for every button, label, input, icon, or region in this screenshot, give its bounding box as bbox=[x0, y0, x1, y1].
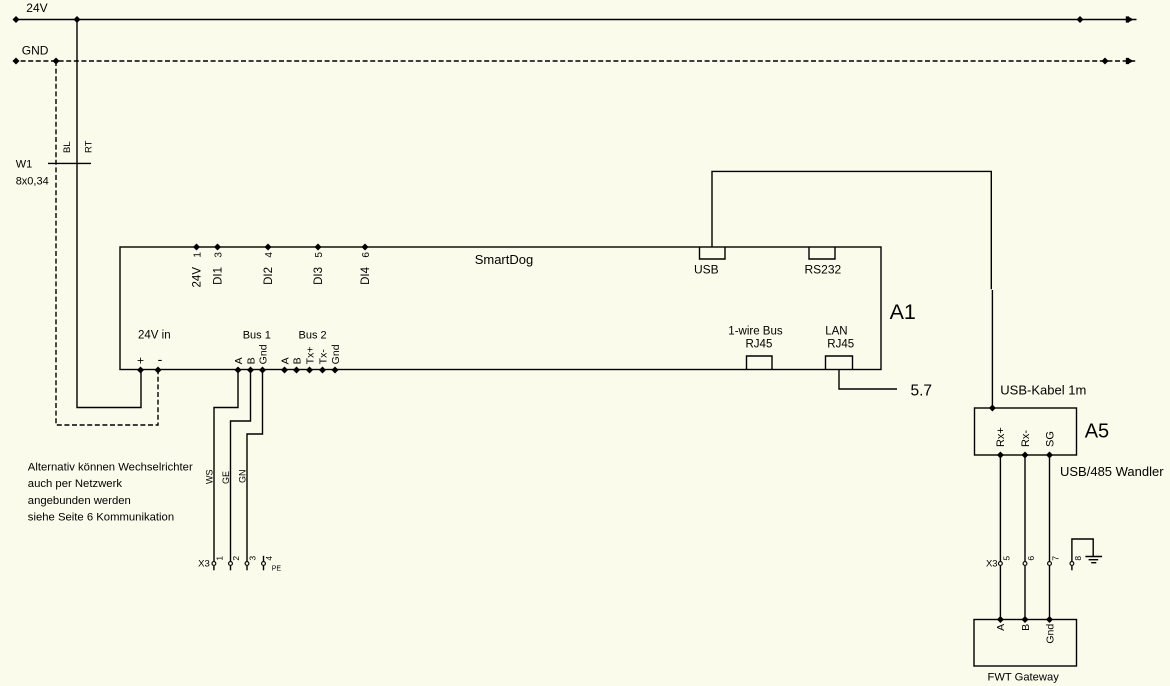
wire USB to A5 upper bbox=[712, 171, 991, 289]
svg-text:A: A bbox=[280, 357, 292, 364]
svg-text:3: 3 bbox=[214, 252, 225, 258]
node FWT B bbox=[1022, 616, 1029, 623]
svg-text:6: 6 bbox=[1026, 556, 1036, 561]
wire SG to X3 pin7 bbox=[1049, 455, 1051, 561]
box A5 USB/485 converter bbox=[975, 408, 1077, 455]
connector X3 pin8 circle bbox=[1070, 562, 1074, 566]
svg-text:4: 4 bbox=[264, 556, 274, 561]
box SmartDog A1 bbox=[120, 247, 881, 370]
svg-text:3: 3 bbox=[248, 556, 258, 561]
svg-text:USB: USB bbox=[694, 263, 719, 277]
pin DI2 4 node bbox=[265, 244, 272, 251]
svg-text:24V in: 24V in bbox=[138, 329, 171, 341]
svg-text:4: 4 bbox=[264, 252, 275, 258]
node A5 top junction bbox=[989, 405, 996, 412]
connector X3 pin1 circle bbox=[212, 562, 216, 566]
pin Rx- node bbox=[1022, 452, 1029, 459]
node 24V bus right diamond bbox=[1077, 16, 1084, 23]
svg-text:24V: 24V bbox=[192, 267, 204, 288]
svg-text:Gnd: Gnd bbox=[330, 344, 342, 364]
pin Bus1 B node bbox=[247, 367, 254, 374]
svg-text:X3: X3 bbox=[986, 558, 998, 569]
wire pin8 to ground bbox=[1072, 539, 1093, 561]
node FWT A bbox=[997, 616, 1004, 623]
svg-text:GND: GND bbox=[22, 44, 49, 58]
pin Bus2 Tx+ node bbox=[306, 367, 313, 374]
connector 1-wire Bus notch bbox=[747, 356, 773, 370]
ground symbol bbox=[1085, 557, 1102, 563]
svg-text:GN: GN bbox=[238, 470, 248, 484]
pin DI1 3 node bbox=[214, 244, 221, 251]
svg-text:+: + bbox=[137, 354, 144, 368]
wire Bus1 A to X3 pin1 bbox=[214, 370, 238, 561]
svg-text:DI4: DI4 bbox=[360, 266, 372, 285]
svg-text:B: B bbox=[246, 357, 258, 364]
pin Bus1 Gnd node bbox=[259, 367, 266, 374]
pin minus node bbox=[155, 367, 162, 374]
svg-text:LAN: LAN bbox=[825, 325, 847, 337]
wire Bus1 Gnd to X3 pin3 bbox=[247, 370, 263, 561]
svg-text:1: 1 bbox=[193, 252, 204, 258]
svg-text:DI1: DI1 bbox=[213, 267, 225, 285]
wire X3 pin5 to FWT A bbox=[999, 566, 1001, 620]
box FWT Gateway bbox=[974, 620, 1077, 667]
connector X3 pin2 stub bbox=[230, 566, 232, 570]
connector RS232 notch bbox=[809, 247, 835, 259]
connector X3 pin5 circle bbox=[999, 562, 1003, 566]
svg-text:SG: SG bbox=[1045, 431, 1057, 447]
svg-text:X3: X3 bbox=[198, 558, 210, 569]
svg-text:6: 6 bbox=[361, 252, 372, 258]
svg-text:Bus 2: Bus 2 bbox=[299, 329, 327, 341]
wire GND vertical drop to - (dashed) bbox=[56, 61, 158, 425]
pin plus node bbox=[137, 367, 144, 374]
svg-text:A5: A5 bbox=[1085, 420, 1109, 442]
pin Bus1 A node bbox=[235, 367, 242, 374]
wire GND bus (dashed) bbox=[13, 60, 1137, 62]
svg-text:RJ45: RJ45 bbox=[827, 338, 854, 350]
wire LAN to 5.7 bbox=[839, 370, 897, 390]
node GND bus right diamond bbox=[1102, 58, 1109, 65]
wire 24V bus bbox=[13, 19, 1137, 21]
connector X3 pin7 circle bbox=[1048, 562, 1052, 566]
svg-text:5: 5 bbox=[1002, 556, 1012, 561]
node GND bus left end bbox=[13, 58, 20, 65]
connector X3 pin6 circle bbox=[1023, 562, 1027, 566]
svg-text:Gnd: Gnd bbox=[1045, 624, 1057, 644]
wire Rx+ to X3 pin5 bbox=[999, 455, 1001, 561]
svg-text:A: A bbox=[995, 624, 1007, 631]
connector X3 pin4 stub below bbox=[263, 566, 265, 570]
node GND bus junction bbox=[53, 58, 60, 65]
svg-text:PE: PE bbox=[272, 566, 282, 573]
svg-text:BL: BL bbox=[62, 141, 73, 153]
pin Bus2 Tx- node bbox=[319, 367, 326, 374]
cable W1 tick bbox=[48, 162, 91, 164]
svg-text:DI2: DI2 bbox=[263, 267, 275, 285]
arrow GND bus right bbox=[1126, 58, 1134, 64]
pin Rx+ node bbox=[997, 452, 1004, 459]
connector X3 pin3 stub bbox=[246, 566, 248, 570]
connector X3 pin3 circle bbox=[245, 562, 249, 566]
pin DI3 5 node bbox=[315, 244, 322, 251]
pin DI4 6 node bbox=[362, 244, 369, 251]
svg-text:8: 8 bbox=[1073, 556, 1083, 561]
pin Bus2 A node bbox=[281, 367, 288, 374]
connector X3 pin4 stub above bbox=[263, 556, 265, 561]
svg-text:24V: 24V bbox=[26, 1, 47, 15]
wire 24V vertical drop to +24V in bbox=[77, 20, 141, 408]
svg-text:WS: WS bbox=[204, 470, 214, 485]
wire Rx- to X3 pin6 bbox=[1024, 455, 1026, 561]
wire X3 pin6 to FWT B bbox=[1024, 566, 1026, 620]
svg-text:W1: W1 bbox=[16, 159, 33, 171]
connector X3 pin2 circle bbox=[229, 562, 233, 566]
connector LAN notch bbox=[826, 356, 853, 370]
svg-text:5.7: 5.7 bbox=[911, 382, 933, 399]
svg-text:A: A bbox=[233, 357, 245, 364]
pin SG node bbox=[1046, 452, 1053, 459]
arrow 24V bus right bbox=[1126, 16, 1134, 22]
wire USB to A5 lower bbox=[991, 290, 993, 408]
svg-text:RJ45: RJ45 bbox=[746, 338, 773, 350]
connector USB notch bbox=[700, 247, 726, 259]
pin 24V 1 node bbox=[193, 244, 200, 251]
svg-text:1-wire Bus: 1-wire Bus bbox=[728, 325, 783, 337]
svg-text:angebunden werden: angebunden werden bbox=[28, 495, 131, 507]
node FWT Gnd bbox=[1046, 616, 1053, 623]
svg-text:siehe Seite 6 Kommunikation: siehe Seite 6 Kommunikation bbox=[28, 512, 174, 524]
svg-text:A1: A1 bbox=[890, 300, 916, 324]
wire Bus1 B to X3 pin2 bbox=[231, 370, 251, 561]
pin Bus2 B node bbox=[293, 367, 300, 374]
connector X3 pin1 stub bbox=[213, 566, 215, 570]
svg-text:SmartDog: SmartDog bbox=[475, 252, 534, 267]
svg-text:Rx-: Rx- bbox=[1020, 430, 1032, 447]
svg-text:-: - bbox=[158, 351, 163, 367]
svg-text:GE: GE bbox=[221, 471, 231, 484]
svg-text:5: 5 bbox=[314, 252, 325, 258]
svg-text:Alternativ können Wechselricht: Alternativ können Wechselrichter bbox=[28, 461, 193, 473]
svg-text:Gnd: Gnd bbox=[258, 344, 270, 364]
svg-text:DI3: DI3 bbox=[313, 267, 325, 285]
connector X3 pin4 circle bbox=[262, 562, 266, 566]
svg-text:7: 7 bbox=[1051, 556, 1061, 561]
svg-text:8x0,34: 8x0,34 bbox=[16, 176, 49, 188]
svg-text:RT: RT bbox=[84, 140, 95, 153]
svg-text:auch per Netzwerk: auch per Netzwerk bbox=[28, 478, 123, 490]
node 24V bus left end bbox=[13, 16, 20, 23]
node 24V bus junction bbox=[74, 16, 81, 23]
svg-text:RS232: RS232 bbox=[805, 263, 842, 277]
wire X3 pin7 to FWT Gnd bbox=[1049, 566, 1051, 620]
svg-text:B: B bbox=[1020, 624, 1032, 631]
svg-text:USB-Kabel 1m: USB-Kabel 1m bbox=[1000, 382, 1086, 397]
svg-text:USB/485 Wandler: USB/485 Wandler bbox=[1060, 464, 1164, 479]
svg-text:2: 2 bbox=[231, 556, 241, 561]
svg-text:Rx+: Rx+ bbox=[995, 427, 1007, 447]
svg-text:FWT Gateway: FWT Gateway bbox=[988, 672, 1060, 684]
pin Bus2 Gnd node bbox=[332, 367, 339, 374]
svg-text:1: 1 bbox=[215, 556, 225, 561]
svg-text:Tx-: Tx- bbox=[318, 349, 330, 365]
svg-text:Bus 1: Bus 1 bbox=[243, 329, 271, 341]
svg-text:Tx+: Tx+ bbox=[305, 347, 317, 365]
svg-text:B: B bbox=[292, 357, 304, 364]
connector X3 pin8 stub bbox=[1071, 566, 1073, 570]
